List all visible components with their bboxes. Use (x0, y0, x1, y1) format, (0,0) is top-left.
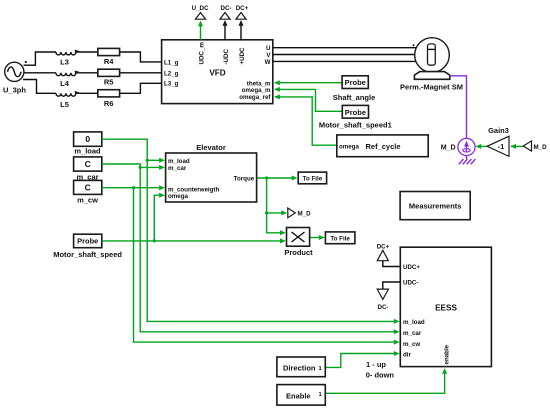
svg-text:R6: R6 (104, 99, 114, 108)
svg-text:+UDC: +UDC (239, 47, 246, 65)
svg-text:C: C (85, 182, 91, 192)
svg-text:0- down: 0- down (366, 370, 395, 379)
svg-text:m_cw: m_cw (403, 341, 420, 348)
svg-text:enable: enable (444, 344, 451, 364)
svg-text:UDC+: UDC+ (403, 264, 420, 271)
svg-text:-1: -1 (498, 142, 505, 151)
svg-text:m_cw: m_cw (77, 195, 98, 204)
svg-text:Probe: Probe (345, 108, 366, 117)
svg-text:Direction: Direction (283, 363, 316, 372)
svg-text:L1_g: L1_g (164, 59, 179, 66)
svg-text:Measurements: Measurements (409, 202, 462, 211)
svg-text:L2_g: L2_g (164, 70, 179, 77)
svg-text:Gain3: Gain3 (488, 126, 509, 135)
svg-text:R4: R4 (104, 57, 114, 66)
svg-text:Shaft_angle: Shaft_angle (333, 93, 376, 102)
svg-text:R5: R5 (104, 78, 114, 87)
svg-text:Product: Product (284, 248, 313, 257)
svg-text:L5: L5 (60, 100, 69, 109)
svg-text:omega: omega (168, 193, 189, 200)
svg-text:m_car: m_car (168, 165, 187, 172)
svg-text:-UDC: -UDC (223, 49, 230, 65)
svg-text:DC+: DC+ (236, 5, 249, 12)
svg-text:Probe: Probe (77, 237, 98, 246)
svg-text:DC-: DC- (378, 304, 389, 311)
svg-text:EESS: EESS (435, 304, 457, 313)
svg-text:L3: L3 (60, 58, 69, 67)
svg-text:m_car: m_car (403, 330, 422, 337)
svg-text:Perm.-Magnet SM: Perm.-Magnet SM (400, 83, 463, 92)
svg-text:Enable: Enable (286, 391, 311, 400)
svg-text:C: C (85, 159, 91, 169)
svg-text:m_load: m_load (403, 319, 425, 326)
svg-text:Motor_shaft_speed1: Motor_shaft_speed1 (319, 121, 392, 130)
svg-text:UDC_m: UDC_m (198, 42, 205, 65)
svg-text:omega: omega (339, 144, 360, 151)
svg-text:m_load: m_load (168, 158, 190, 165)
svg-text:DC-: DC- (221, 5, 232, 12)
svg-text:1 - up: 1 - up (366, 360, 386, 369)
svg-text:omega_ref: omega_ref (239, 94, 271, 101)
svg-text:M_D: M_D (441, 145, 456, 152)
svg-text:L3_g: L3_g (164, 81, 179, 88)
svg-text:M_D: M_D (534, 144, 548, 151)
svg-text:dir: dir (403, 351, 411, 358)
svg-text:U_DC: U_DC (192, 5, 209, 12)
svg-text:To File: To File (303, 176, 323, 183)
svg-text:UDC-: UDC- (403, 280, 418, 287)
svg-text:Elevator: Elevator (196, 143, 226, 152)
svg-text:m_load: m_load (74, 146, 101, 155)
svg-text:To File: To File (330, 235, 350, 242)
svg-text:0: 0 (85, 134, 90, 144)
svg-text:U_3ph: U_3ph (3, 85, 26, 94)
svg-text:M_D: M_D (298, 210, 312, 217)
svg-text:VFD: VFD (209, 69, 225, 78)
svg-text:Probe: Probe (345, 78, 366, 87)
svg-text:Ref_cycle: Ref_cycle (366, 142, 401, 151)
svg-text:Torque: Torque (234, 175, 255, 182)
svg-text:DC+: DC+ (377, 243, 390, 250)
svg-text:W: W (265, 59, 271, 66)
svg-text:Motor_shaft_speed: Motor_shaft_speed (53, 250, 122, 259)
svg-text:L4: L4 (60, 79, 70, 88)
